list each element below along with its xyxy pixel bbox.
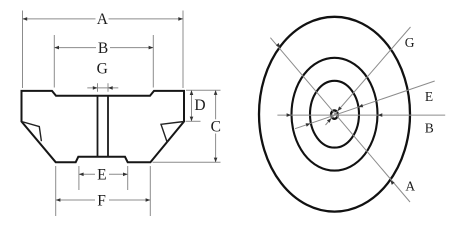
- dimension C: [215, 90, 217, 162]
- arrow F left: [56, 198, 61, 202]
- arrow G right (outside, pointing left): [108, 86, 113, 90]
- arrow E left: [79, 173, 84, 177]
- dimension E: [79, 173, 128, 175]
- arrow G left (outside, pointing right): [93, 86, 98, 90]
- extension lines E: [79, 166, 128, 190]
- arrow B right: [149, 46, 154, 50]
- extension lines F: [56, 166, 151, 216]
- arrow A right: [178, 17, 183, 21]
- bore line right: [107, 96, 109, 157]
- arrow D bottom: [190, 117, 194, 122]
- arrow A left: [23, 17, 28, 21]
- arrow A2 upper (pointing down-right at outer circle): [276, 43, 280, 48]
- arrow D top: [190, 90, 194, 95]
- arrow E right: [123, 173, 128, 177]
- arrow E2 left (pointing up-right at third circle): [306, 123, 311, 126]
- dimension G: [87, 87, 118, 89]
- svg-text:E: E: [425, 89, 433, 104]
- dimension B: [54, 47, 153, 49]
- svg-text:F: F: [97, 192, 106, 209]
- svg-text:A: A: [405, 178, 415, 193]
- arrow B2 left (pointing right at second circle): [287, 113, 292, 117]
- right chamfer facet (flap): [161, 122, 184, 143]
- center hub circle (dim G): [331, 110, 338, 118]
- arrow F right: [146, 198, 151, 202]
- arrow A2 lower (pointing up-left at outer circle): [390, 180, 394, 185]
- dimension line G (diagonal): [326, 27, 411, 125]
- dimension line E (shallow diagonal): [295, 81, 435, 129]
- svg-text:D: D: [194, 97, 205, 114]
- svg-text:C: C: [211, 119, 221, 136]
- bottom extension line D: [186, 120, 201, 122]
- bottom extension line C: [153, 161, 221, 163]
- second circle (dim B): [292, 58, 378, 171]
- extension lines B: [54, 35, 153, 88]
- extension lines A: [23, 11, 184, 89]
- part outline (section profile): [22, 91, 185, 162]
- dimension A: [23, 18, 184, 20]
- svg-text:G: G: [405, 35, 415, 50]
- dimension F: [56, 199, 151, 201]
- third circle (dim E): [310, 81, 359, 148]
- arrow G2 upper (pointing down-left at hub circle): [338, 106, 342, 111]
- bore line left: [97, 96, 99, 157]
- left chamfer facet (flap): [22, 122, 42, 142]
- horizontal centerline / dimension B line: [277, 114, 445, 116]
- svg-text:B: B: [98, 40, 108, 57]
- arrow G2 lower (pointing up-right at hub circle): [327, 118, 331, 123]
- arrow E2 right (pointing down-left at third circle): [358, 104, 363, 107]
- dimension line A (diagonal): [270, 38, 410, 202]
- outer circle (dim A): [259, 17, 410, 212]
- extension ticks G: [98, 83, 109, 92]
- svg-text:E: E: [97, 167, 106, 184]
- arrow C bottom: [214, 158, 218, 163]
- svg-text:A: A: [97, 11, 109, 28]
- arrow B2 right (pointing left at second circle): [378, 113, 383, 117]
- arrow C top: [214, 90, 218, 95]
- top extension line (C and D): [186, 89, 221, 91]
- svg-text:G: G: [97, 61, 108, 78]
- svg-text:B: B: [425, 121, 434, 136]
- arrow B left: [54, 46, 59, 50]
- dimension D: [191, 90, 193, 121]
